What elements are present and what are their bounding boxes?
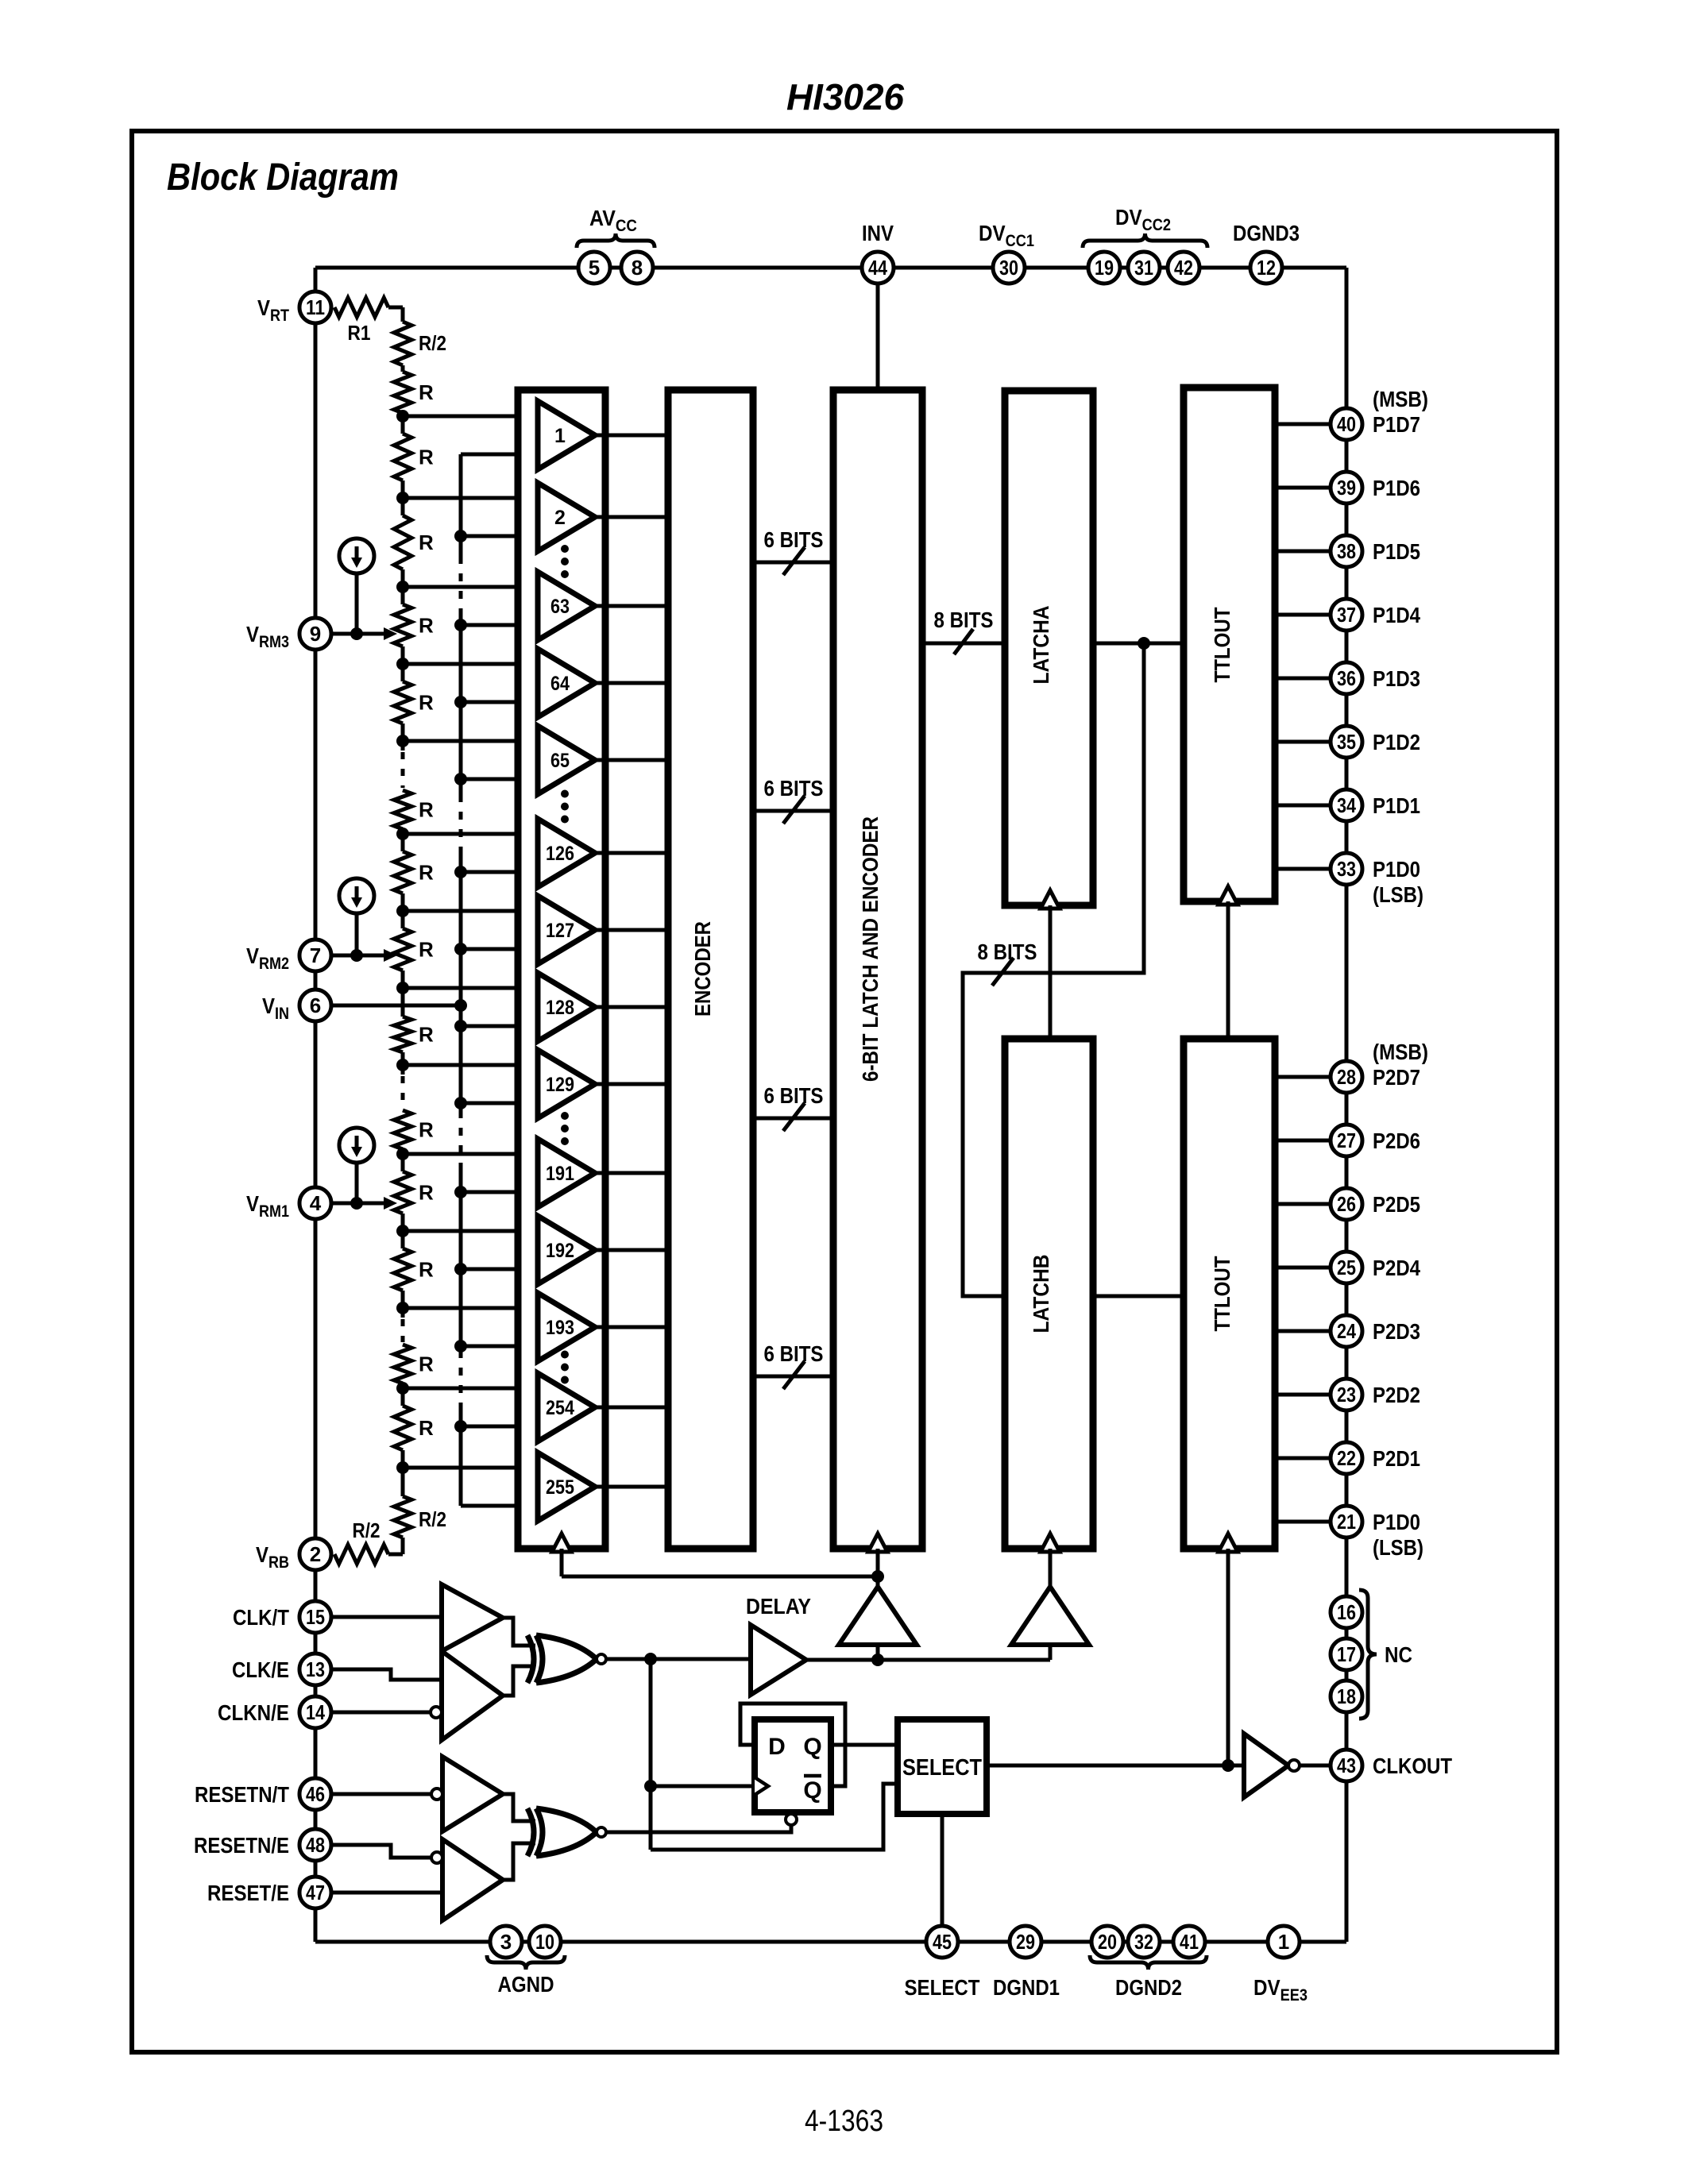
svg-text:P1D1: P1D1 [1373, 793, 1420, 818]
bubble xor clock out [597, 1654, 606, 1664]
ellipsis comps 193-254 [561, 1351, 569, 1359]
wire bottom rail [315, 1940, 1346, 1944]
wire comp 65 output [595, 758, 668, 762]
svg-text:Q: Q [803, 1777, 821, 1804]
svg-text:R/2: R/2 [419, 1507, 446, 1531]
svg-text:42: 42 [1174, 256, 1193, 280]
svg-text:17: 17 [1337, 1642, 1356, 1666]
wire TTLOUT to pin 38 [1275, 550, 1331, 554]
svg-text:P1D4: P1D4 [1373, 603, 1420, 627]
svg-text:RESET/E: RESET/E [207, 1881, 289, 1905]
wire comp 128 ref input [403, 986, 538, 990]
wire CLK/E [331, 1669, 442, 1680]
pin 6 VIN [299, 990, 331, 1021]
bubble CLKOUT inverter [1288, 1760, 1300, 1771]
wire comp 64 output [595, 681, 668, 685]
buffer clock T [442, 1584, 503, 1651]
current source RM1 [339, 1128, 374, 1163]
svg-text:P1D0: P1D0 [1373, 1510, 1420, 1534]
resistor R f [394, 790, 411, 829]
pin 2 VRB [299, 1538, 331, 1570]
svg-text:R: R [419, 1416, 434, 1440]
comparator 64 [538, 649, 595, 717]
wire TTLOUT to pin 39 [1275, 486, 1331, 490]
svg-text:16: 16 [1337, 1600, 1356, 1624]
svg-text:HI3026: HI3026 [786, 76, 904, 118]
pin 42 DVCC2 [1168, 252, 1199, 284]
svg-text:INV: INV [862, 221, 894, 245]
node clock branch [871, 1570, 884, 1583]
pin 20 DGND2 [1091, 1926, 1123, 1958]
svg-text:64: 64 [550, 673, 570, 695]
pin 47 RESET/E [299, 1877, 331, 1908]
pin 35 P1D2 [1331, 726, 1362, 758]
svg-text:19: 19 [1095, 256, 1114, 280]
node VIN junction [454, 999, 467, 1012]
pin 5 AVCC [578, 252, 610, 284]
bus 8 BITS B slash [992, 958, 1014, 986]
pin 19 DVCC2 [1088, 252, 1120, 284]
wire RESET/E [331, 1891, 442, 1895]
svg-text:18: 18 [1337, 1684, 1356, 1708]
wire comp 126 output [595, 851, 668, 855]
brace NC [1359, 1590, 1377, 1719]
wire TTLOUT to pin 33 [1275, 867, 1331, 871]
arrow RM2 tap [384, 949, 397, 962]
svg-text:1: 1 [1278, 1930, 1289, 1954]
comparator 128 [538, 973, 595, 1041]
resistor R g [394, 851, 411, 893]
wire VIN dashed c [459, 1110, 463, 1169]
wire VIN line comp1 corner [459, 454, 463, 556]
resistor R/2 top [394, 322, 411, 365]
wire TTLOUT2 to pin 25 [1275, 1266, 1331, 1270]
pin 21 P1D0 [1331, 1506, 1362, 1538]
node RM2 junction [350, 949, 363, 962]
wire comp 63 ref input [403, 585, 538, 589]
bus 6 BITS 2 [753, 809, 833, 813]
wire comp 254 vin input [461, 1425, 538, 1429]
resistor R b [394, 434, 411, 480]
svg-text:24: 24 [1337, 1319, 1356, 1343]
svg-text:P1D3: P1D3 [1373, 666, 1420, 691]
svg-text:14: 14 [306, 1700, 325, 1724]
wire comp 193 ref input [403, 1306, 538, 1310]
svg-text:P1D2: P1D2 [1373, 730, 1420, 754]
comparator 63 [538, 572, 595, 640]
wire ladder n lower [401, 1450, 405, 1468]
wire ladder i upper [401, 988, 405, 1017]
svg-text:44: 44 [868, 256, 887, 280]
node delay out branch [871, 1653, 884, 1666]
comparator 1 [538, 401, 595, 469]
wire comp 63 output [595, 604, 668, 608]
svg-text:4-1363: 4-1363 [805, 2105, 883, 2138]
pin 33 P1D0 [1331, 853, 1362, 885]
svg-text:R: R [419, 1352, 434, 1376]
brace DGND2 [1090, 1955, 1207, 1970]
wire ladder b lower [401, 480, 405, 498]
svg-text:P2D7: P2D7 [1373, 1065, 1420, 1090]
wire comp 1 output [595, 434, 668, 438]
svg-text:47: 47 [306, 1881, 325, 1904]
wire ladder bottom corner [388, 1553, 403, 1557]
svg-text:40: 40 [1337, 412, 1356, 436]
wire RESETN/T [331, 1792, 431, 1796]
svg-text:R: R [419, 1181, 434, 1205]
svg-text:2: 2 [554, 507, 566, 529]
pin 16 NC [1331, 1596, 1362, 1628]
resistor R i [394, 1017, 411, 1052]
wire DFF clock [651, 1785, 755, 1788]
wire comp 128 vin input [461, 1024, 538, 1028]
pin 39 P1D6 [1331, 472, 1362, 504]
comparator 127 [538, 896, 595, 964]
node VIN tap 65 [454, 773, 467, 785]
xor gate clock [527, 1635, 534, 1683]
flip-flop U1 [755, 1719, 831, 1812]
svg-text:41: 41 [1180, 1930, 1199, 1954]
wire ladder h upper [401, 911, 405, 928]
svg-text:DGND3: DGND3 [1233, 221, 1300, 245]
pin 9 RM3 [299, 618, 331, 650]
wire current source RM2 [355, 913, 359, 955]
pin 44 INV [862, 252, 894, 284]
svg-text:6 BITS: 6 BITS [764, 527, 824, 552]
inverter CLKOUT [1244, 1734, 1288, 1797]
wire buffer RE out [503, 1843, 535, 1880]
pin 14 CLKN/E [299, 1696, 331, 1728]
svg-text:13: 13 [306, 1657, 325, 1681]
pin 45 SELECT [926, 1926, 958, 1958]
wire comp 192 ref input [403, 1229, 538, 1233]
wire LATCH clocks upper [1049, 905, 1053, 1039]
wire comp 191 ref input [403, 1152, 538, 1156]
wire comp 193 vin input [461, 1345, 538, 1349]
svg-text:48: 48 [306, 1833, 325, 1857]
pin 13 CLK/E [299, 1653, 331, 1685]
svg-text:11: 11 [306, 295, 325, 319]
node VIN tap 128 [454, 1020, 467, 1032]
wire TTLOUT to pin 36 [1275, 677, 1331, 681]
comparator 129 [538, 1050, 595, 1118]
wire VIN dashed b [459, 794, 463, 851]
block ENCODER [668, 390, 753, 1549]
node select clkout junction [1222, 1759, 1234, 1772]
wire comp 127 output [595, 928, 668, 932]
wire TTLOUT2 to pin 26 [1275, 1202, 1331, 1206]
svg-text:43: 43 [1337, 1754, 1356, 1777]
wire buffer2 base [1049, 1645, 1053, 1660]
wire INV to 6-bit latch [876, 284, 880, 390]
svg-text:12: 12 [1257, 256, 1276, 280]
clock input 6-bit latch [868, 1534, 887, 1552]
svg-text:37: 37 [1337, 603, 1356, 627]
svg-text:(MSB): (MSB) [1373, 387, 1428, 411]
pin 8 AVCC [621, 252, 653, 284]
wire ladder g lower [401, 893, 405, 911]
clock wedge DFF [755, 1777, 768, 1795]
node ladder tap 193 [396, 1302, 409, 1314]
wire comp 126 vin input [461, 870, 538, 874]
wire buffer RT out [503, 1794, 535, 1821]
svg-text:P2D4: P2D4 [1373, 1256, 1420, 1280]
svg-text:5: 5 [589, 256, 600, 280]
svg-text:R: R [419, 798, 434, 822]
pin 17 NC [1331, 1638, 1362, 1670]
wire right rail [1345, 268, 1349, 1942]
wire CLKN/E [331, 1711, 431, 1715]
wire ladder l lower [401, 1291, 405, 1308]
pin 28 P2D7 [1331, 1061, 1362, 1093]
wire ladder dashed m [401, 1308, 405, 1318]
pin 29 DGND1 [1010, 1926, 1041, 1958]
wire TTLOUT to pin 35 [1275, 740, 1331, 744]
pin 12 DGND3 [1250, 252, 1282, 284]
wire VIN line d [459, 1169, 463, 1350]
node ladder tap 64 [396, 658, 409, 670]
wire TTLOUT to pin 37 [1275, 613, 1331, 617]
wire RM2 tap [331, 954, 386, 958]
svg-text:P2D6: P2D6 [1373, 1129, 1420, 1153]
bus 6 BITS 4 [753, 1375, 833, 1379]
wire comp 193 output [595, 1325, 668, 1329]
block TTLOUT upper [1184, 388, 1275, 901]
resistor R a [394, 372, 411, 413]
pin 15 CLK/T [299, 1601, 331, 1633]
wire xor reset to DFF [606, 1825, 791, 1832]
svg-text:8 BITS: 8 BITS [978, 940, 1037, 964]
svg-text:32: 32 [1134, 1930, 1153, 1954]
svg-text:22: 22 [1337, 1446, 1356, 1470]
block SELECT [898, 1719, 987, 1814]
wire TTLOUT2 to pin 22 [1275, 1457, 1331, 1461]
svg-text:R: R [419, 861, 434, 885]
svg-text:255: 255 [546, 1476, 574, 1499]
node VIN tap 192 [454, 1263, 467, 1275]
svg-text:(LSB): (LSB) [1373, 1535, 1423, 1560]
svg-text:LATCHB: LATCHB [1029, 1255, 1053, 1333]
resistor R h [394, 928, 411, 970]
pin 26 P2D5 [1331, 1188, 1362, 1220]
wire ladder h lower [401, 970, 405, 988]
wire ladder k lower [401, 1214, 405, 1231]
svg-text:CLKOUT: CLKOUT [1373, 1754, 1452, 1778]
pin 25 P2D4 [1331, 1252, 1362, 1283]
pin 24 P2D3 [1331, 1315, 1362, 1347]
wire 6-bit clock to buffer [876, 1549, 880, 1587]
node VIN tap 127 [454, 943, 467, 955]
svg-text:30: 30 [999, 256, 1018, 280]
pin 43 CLKOUT [1331, 1750, 1362, 1781]
wire comp 126 ref input [403, 832, 538, 836]
buffer reset E [442, 1839, 503, 1920]
svg-text:126: 126 [546, 843, 574, 865]
wire TTLOUT2 to pin 28 [1275, 1075, 1331, 1079]
buffer clock E [442, 1651, 503, 1740]
wire clock net [606, 1657, 751, 1661]
wire LATCHA to TTLOUT [1093, 642, 1184, 646]
comparator array box [518, 390, 605, 1549]
svg-text:36: 36 [1337, 666, 1356, 690]
svg-text:R: R [419, 380, 434, 404]
wire VIN to distribution [331, 1004, 461, 1008]
pin 27 P2D6 [1331, 1125, 1362, 1156]
pin 18 NC [1331, 1680, 1362, 1712]
svg-text:R/2: R/2 [419, 331, 446, 355]
svg-text:Block Diagram: Block Diagram [167, 156, 399, 199]
wire comp 65 ref input [403, 739, 538, 743]
pin 1 DVEE3 [1268, 1926, 1300, 1958]
wire clock branch to array [562, 1575, 878, 1579]
pin 7 RM2 [299, 940, 331, 971]
wire comp 63 vin input [461, 623, 538, 627]
resistor R j [394, 1110, 411, 1149]
svg-text:Q: Q [803, 1734, 821, 1760]
svg-text:46: 46 [306, 1782, 325, 1806]
wire buffer T out [503, 1618, 535, 1646]
node bus B branch [1138, 637, 1150, 650]
wire ladder b upper [401, 416, 405, 434]
buffer clock driver 2 [1011, 1587, 1089, 1645]
svg-text:8: 8 [632, 256, 643, 280]
svg-text:DGND2: DGND2 [1115, 1975, 1182, 2000]
wire comp 255 vin input [461, 1504, 538, 1508]
pin 46 RESETN/T [299, 1778, 331, 1810]
current source RM2 [339, 878, 374, 913]
ellipsis comps 129-191 [561, 1112, 569, 1120]
wire comp 129 vin input [461, 1102, 538, 1106]
node ladder tap 126 [396, 828, 409, 840]
svg-text:20: 20 [1098, 1930, 1117, 1954]
svg-text:R: R [419, 1258, 434, 1282]
pin 3 AGND [490, 1926, 522, 1958]
comparator 193 [538, 1293, 595, 1361]
svg-text:P1D5: P1D5 [1373, 539, 1420, 564]
wire ladder d lower [401, 646, 405, 664]
wire delay out [806, 1658, 1050, 1662]
wire TTLOUT2 to pin 24 [1275, 1329, 1331, 1333]
wire comp 255 output [595, 1485, 668, 1489]
wire comp 64 ref input [403, 662, 538, 666]
pin 34 P1D1 [1331, 789, 1362, 821]
block LATCHB [1005, 1039, 1093, 1549]
comparator 254 [538, 1373, 595, 1441]
pin 48 RESETN/E [299, 1829, 331, 1861]
svg-text:39: 39 [1337, 476, 1356, 500]
pin 23 P2D2 [1331, 1379, 1362, 1410]
svg-text:R: R [419, 691, 434, 715]
pin 37 P1D4 [1331, 599, 1362, 631]
wire comp 254 output [595, 1406, 668, 1410]
node ladder tap 1 [396, 410, 409, 423]
svg-text:6 BITS: 6 BITS [764, 1083, 824, 1108]
wire comp 1 ref input [403, 415, 538, 419]
xor gate reset [527, 1808, 534, 1856]
svg-text:25: 25 [1337, 1256, 1356, 1279]
wire RESETN/E [331, 1845, 431, 1858]
resistor R n [394, 1406, 411, 1450]
brace AGND [487, 1955, 565, 1970]
svg-text:21: 21 [1337, 1510, 1356, 1534]
svg-text:R: R [419, 446, 434, 469]
node VIN tap 63 [454, 619, 467, 631]
svg-text:8 BITS: 8 BITS [934, 608, 994, 632]
svg-text:7: 7 [310, 943, 321, 967]
node ladder tap 63 [396, 581, 409, 593]
wire VIN line b [459, 612, 463, 794]
svg-text:6: 6 [310, 994, 321, 1017]
svg-text:34: 34 [1337, 793, 1356, 817]
svg-text:193: 193 [546, 1317, 574, 1339]
svg-text:15: 15 [306, 1605, 325, 1629]
wire VIN dashed a [459, 556, 463, 612]
svg-text:NC: NC [1385, 1642, 1412, 1667]
node ladder tap 2 [396, 492, 409, 504]
svg-text:SELECT: SELECT [902, 1755, 982, 1781]
brace AVCC pins [577, 233, 655, 248]
clock input TTLOUT upper [1219, 886, 1238, 905]
wire comp 65 vin input [461, 778, 538, 781]
node DFF clock junction [644, 1780, 657, 1792]
pin 38 P1D5 [1331, 535, 1362, 567]
brace DVCC2 pins [1083, 233, 1207, 248]
svg-text:65: 65 [550, 750, 570, 772]
wire top power rail [315, 266, 1346, 270]
svg-text:ENCODER: ENCODER [690, 921, 715, 1017]
wire ladder dashed f [401, 741, 405, 751]
wire ladder k upper [401, 1154, 405, 1171]
pin 40 P1D7 [1331, 408, 1362, 440]
wire ladder bottom upper [401, 1468, 405, 1496]
wire VIN dashed d [459, 1350, 463, 1406]
pin 41 DGND2 [1173, 1926, 1205, 1958]
resistor R/2 bottom [394, 1496, 411, 1538]
resistor R e [394, 681, 411, 723]
svg-text:DELAY: DELAY [746, 1594, 811, 1619]
wire comp 191 vin input [461, 1190, 538, 1194]
wire comp 2 output [595, 515, 668, 519]
bubble xor reset out [597, 1827, 606, 1837]
svg-text:R: R [419, 614, 434, 638]
svg-text:RESETN/T: RESETN/T [195, 1782, 289, 1807]
wire comp 127 ref input [403, 909, 538, 913]
svg-text:31: 31 [1134, 256, 1153, 280]
svg-text:29: 29 [1016, 1930, 1035, 1954]
node ladder tap 65 [396, 735, 409, 747]
wire ladder e upper [401, 664, 405, 681]
buffer DELAY [751, 1625, 806, 1695]
svg-text:CLK/T: CLK/T [233, 1605, 289, 1630]
wire ladder d upper [401, 587, 405, 604]
svg-text:D: D [768, 1734, 786, 1760]
wire select lower input [651, 1784, 898, 1850]
svg-text:127: 127 [546, 920, 574, 942]
clock input comparator array [552, 1534, 571, 1552]
svg-text:AGND: AGND [498, 1972, 554, 1997]
wire VIN line e [459, 1406, 463, 1506]
bubble DFF reset [786, 1814, 797, 1825]
wire TTLOUT clocks upper [1226, 901, 1230, 1039]
wire ladder n upper [401, 1388, 405, 1406]
wire comp 2 ref input [403, 496, 538, 500]
wire comp 64 vin input [461, 700, 538, 704]
wire ladder e lower [401, 723, 405, 741]
wire comp 254 ref input [403, 1387, 538, 1391]
wire ladder i lower [401, 1052, 405, 1065]
bubble RESETN/E input [431, 1852, 442, 1863]
comparator 2 [538, 483, 595, 551]
